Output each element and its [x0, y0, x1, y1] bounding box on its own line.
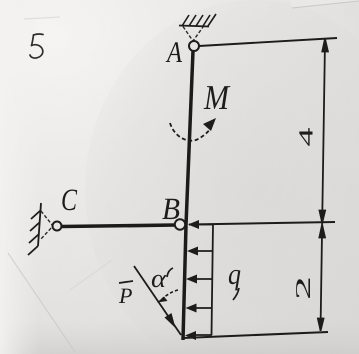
- fixed support hatching at A: [179, 14, 216, 27]
- angle alpha arc: [157, 290, 178, 303]
- figure number 5: [30, 34, 43, 58]
- svg-text:2: 2: [291, 276, 315, 300]
- distributed load arrow 2: [187, 247, 213, 256]
- pin C: [53, 222, 62, 231]
- extension line bottom: [183, 332, 328, 338]
- svg-text:B: B: [162, 191, 180, 226]
- distributed load arrow 1: [188, 220, 213, 229]
- svg-text:q: q: [228, 258, 241, 291]
- pin support triangle at C: [40, 211, 53, 240]
- svg-text:4: 4: [296, 128, 318, 147]
- distributed load arrow 5: [185, 331, 212, 340]
- svg-text:C: C: [61, 182, 77, 217]
- svg-text:A: A: [165, 36, 182, 69]
- extension line top from A: [199, 38, 337, 46]
- bar AB vertical member: [183, 51, 193, 340]
- force P arrow: [134, 266, 181, 335]
- pin B: [175, 219, 185, 229]
- pin support triangle at A: [183, 27, 203, 42]
- distributed load arrow 4: [186, 304, 213, 313]
- fixed support hatching at C: [28, 203, 41, 255]
- label P with overbar: [118, 281, 133, 308]
- dimension line right vertical: [318, 39, 328, 331]
- distributed load q right boundary: [212, 225, 214, 336]
- moment M arc arrow: [170, 118, 216, 141]
- svg-text:M: M: [203, 78, 230, 117]
- distributed load arrow 3: [186, 275, 213, 284]
- extension line middle at B: [189, 222, 335, 225]
- pin A: [189, 41, 199, 51]
- bar CB horizontal member: [62, 225, 176, 227]
- svg-text:α: α: [151, 264, 167, 293]
- svg-text:P: P: [118, 283, 132, 308]
